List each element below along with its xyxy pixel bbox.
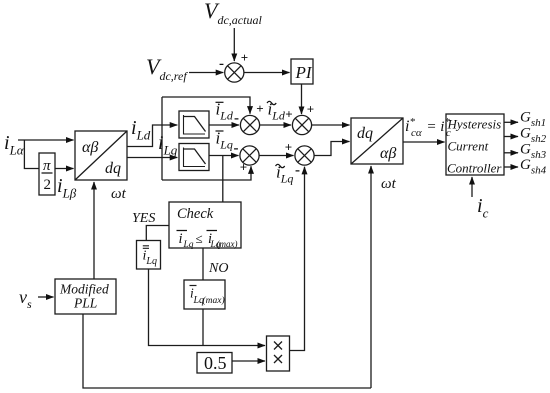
wire S4 output into dq-ab block <box>314 142 349 156</box>
wire vertical tap line <box>161 97 163 180</box>
svg-text:+: + <box>285 107 292 122</box>
svg-text:≤: ≤ <box>196 231 203 246</box>
block PI <box>291 59 313 84</box>
wire gate output G_sh1 <box>504 121 518 123</box>
label ibar_Ld <box>216 100 234 123</box>
label V_dc,ref <box>146 54 188 83</box>
wire branch down to pi/2 <box>24 140 39 169</box>
svg-text:Controller: Controller <box>447 160 502 175</box>
svg-text:Vdc,actual: Vdc,actual <box>204 0 262 27</box>
svg-text:Hysteresis: Hysteresis <box>447 117 502 132</box>
summing junction S4 <box>295 146 314 165</box>
wire LPF2 output to S2 <box>209 155 239 157</box>
wire PLL bottom to dq-ab wt <box>83 314 371 388</box>
wire S0 to PI <box>244 72 290 74</box>
summing junction S2 <box>240 146 259 165</box>
sign minus at S1 left <box>234 111 239 127</box>
block dq to alpha-beta transform <box>351 118 403 164</box>
svg-text:Lq: Lq <box>183 240 194 250</box>
wire S3 output into dq-ab block <box>312 124 350 126</box>
svg-text:Vdc,ref: Vdc,ref <box>146 54 188 83</box>
wire ibar_Lq tap down into check block <box>222 156 224 203</box>
wire multiplier output up to S4 <box>290 167 305 351</box>
svg-text:2: 2 <box>44 177 52 193</box>
wire i_Ld from block up into LPF1 <box>127 125 177 147</box>
svg-text:PLL: PLL <box>73 296 97 311</box>
sign plus at S4 left <box>285 140 292 155</box>
label i_La <box>4 132 25 158</box>
wire i_c up into hysteresis block <box>471 177 473 197</box>
svg-text:+: + <box>285 140 292 155</box>
svg-text:Check: Check <box>177 206 214 222</box>
label ibar_Lq <box>216 129 233 152</box>
svg-text:ic: ic <box>477 195 489 221</box>
label G_sh1 <box>520 110 546 130</box>
svg-text:vs: vs <box>19 287 32 311</box>
svg-text:NO: NO <box>208 261 228 276</box>
label G_sh3 <box>520 142 547 162</box>
sign minus at S2 left <box>234 141 239 157</box>
sign plus at S3 top <box>307 102 314 117</box>
sign plus at S2 bottom <box>240 160 247 175</box>
svg-text:YES: YES <box>132 211 155 226</box>
svg-text:dq: dq <box>357 125 373 142</box>
label i_Ld <box>131 117 151 143</box>
wire V_dc,actual down into summing junction S0 <box>233 28 235 61</box>
label G_sh4 <box>520 157 547 177</box>
svg-text:i: i <box>179 231 183 247</box>
wire wt from bottom into dq-ab block <box>370 166 372 388</box>
block pi/2 <box>39 153 55 195</box>
wire dq-ab output into hysteresis block <box>403 141 445 143</box>
sign plus at S0 <box>241 50 248 65</box>
block multiplier <box>267 336 290 371</box>
svg-text:+: + <box>256 101 263 116</box>
label check condition ibar_Lq less-equal ibar_Lq(max) <box>177 231 238 251</box>
svg-text:+: + <box>241 50 248 65</box>
block LPF2 low-pass filter <box>179 144 209 171</box>
label G_sh2 <box>520 126 547 146</box>
sign plus at S3 left <box>285 107 292 122</box>
wire 0.5 to multiplier <box>232 360 265 362</box>
block hysteresis current controller <box>446 114 504 175</box>
label i_c <box>477 195 489 221</box>
svg-text:iLβ: iLβ <box>57 175 77 201</box>
wire gate output G_sh2 <box>504 136 518 138</box>
summing junction S1 <box>240 115 259 134</box>
label i*_ca = i*_c <box>405 116 451 139</box>
wire top bypass loop into S1 <box>162 97 250 114</box>
label V_dc,actual <box>204 0 262 27</box>
block LPF1 low-pass filter <box>179 111 209 138</box>
block 0.5 gain <box>197 353 232 374</box>
wire gate output G_sh3 <box>504 152 518 154</box>
label i_Lq <box>158 132 178 158</box>
wire gate output G_sh4 <box>504 166 518 168</box>
wire S2 output to S4 <box>259 155 293 157</box>
wire wt from PLL up into ab-dq block <box>93 182 95 279</box>
wire V_dc,ref into S0 <box>189 72 223 74</box>
svg-text:-: - <box>219 56 224 72</box>
sign minus at S4 bottom <box>295 163 300 179</box>
wire no box down joining multiplier wire <box>202 309 204 346</box>
svg-text:ωt: ωt <box>381 176 397 192</box>
svg-text:(max): (max) <box>203 295 225 306</box>
wire pi/2 to ab-dq block <box>55 168 74 170</box>
label YES <box>132 211 155 226</box>
label wt under ab-dq block <box>111 186 127 202</box>
wire i_Lq from block into LPF2 <box>127 157 177 159</box>
wire check no-branch down <box>202 248 204 280</box>
svg-text:PI: PI <box>295 63 313 82</box>
svg-text:Current: Current <box>448 139 489 154</box>
label i_Lb <box>57 175 77 201</box>
label itilde_Ld <box>267 100 286 123</box>
sign minus at S0 <box>219 56 224 72</box>
svg-text:iLq: iLq <box>216 129 233 152</box>
wire PI down to S3 <box>301 84 303 114</box>
svg-text:(max): (max) <box>217 239 238 249</box>
svg-text:iLq: iLq <box>143 249 157 268</box>
block alpha-beta to dq transform <box>75 131 127 180</box>
svg-text:iLα: iLα <box>4 132 25 158</box>
svg-text:iLd: iLd <box>268 100 286 123</box>
label itilde_Lq <box>276 163 294 186</box>
wire S1 output to S3 <box>260 124 291 126</box>
svg-text:-: - <box>234 141 239 157</box>
svg-text:iLq: iLq <box>158 132 178 158</box>
wire v_s into PLL <box>38 296 54 298</box>
svg-text:-: - <box>234 111 239 127</box>
svg-text:αβ: αβ <box>82 139 98 156</box>
wire check yes-branch to ibarbar box <box>146 226 169 241</box>
wire i_La into ab-dq block <box>18 139 74 141</box>
wire yes box down to multiplier <box>149 269 266 346</box>
svg-text:ωt: ωt <box>111 186 127 202</box>
summing junction S3 <box>292 115 311 134</box>
svg-text:0.5: 0.5 <box>204 353 227 373</box>
svg-text:iLq: iLq <box>276 163 293 186</box>
svg-text:i*cα = i*c: i*cα = i*c <box>405 116 451 139</box>
svg-text:Modified: Modified <box>59 282 109 297</box>
label v_s <box>19 287 32 311</box>
block ibar_Lq(max) no value <box>184 280 225 309</box>
summing junction S0 <box>225 63 244 82</box>
sign plus at S1 top <box>256 101 263 116</box>
svg-text:+: + <box>307 102 314 117</box>
svg-text:dq: dq <box>105 160 121 177</box>
wire bottom bypass loop into S2 <box>162 166 251 180</box>
wire LPF1 output to S1 <box>209 124 239 126</box>
label NO <box>208 261 228 276</box>
block ibarbar_Lq yes value <box>137 241 161 270</box>
svg-text:π: π <box>43 158 51 174</box>
block check <box>169 202 241 248</box>
svg-text:iLd: iLd <box>131 117 151 143</box>
svg-text:-: - <box>295 163 300 179</box>
svg-text:iLd: iLd <box>216 100 234 123</box>
svg-text:αβ: αβ <box>380 145 396 162</box>
label wt under dq-ab block <box>381 176 397 192</box>
block modified PLL <box>55 279 116 314</box>
